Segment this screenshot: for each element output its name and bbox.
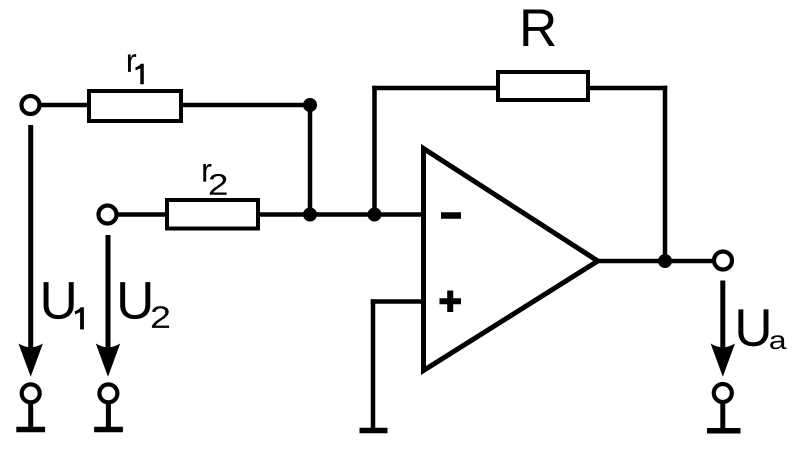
wire from input 2 terminal to resistor r2 xyxy=(116,212,169,217)
op-amp non-inverting input plus sign xyxy=(440,298,462,304)
wire op-amp output to output terminal xyxy=(598,259,715,264)
label r1 xyxy=(128,54,144,84)
resistor R xyxy=(498,72,588,100)
node C junction dot xyxy=(368,208,382,222)
ground terminal 1 open circle xyxy=(22,384,40,402)
wire from resistor R to right elbow xyxy=(586,86,667,91)
label U1 xyxy=(44,282,84,329)
node A junction dot xyxy=(303,98,317,112)
output ground terminal bar xyxy=(707,428,741,434)
wire from input 1 terminal to resistor r1 xyxy=(39,103,91,108)
ground terminal 1 bar xyxy=(16,427,45,433)
label Ua xyxy=(738,309,786,349)
ground bar under + input xyxy=(360,428,388,434)
output ground terminal stem xyxy=(720,403,725,430)
resistor r1 xyxy=(89,91,181,121)
ground terminal 2 bar xyxy=(94,427,123,433)
resistor r2 xyxy=(167,200,258,229)
wire op-amp + input to ground elbow xyxy=(371,299,424,304)
node B junction dot xyxy=(303,208,317,222)
voltage arrow U2 shaft xyxy=(106,235,111,352)
wire ground elbow down to ground symbol xyxy=(371,299,376,430)
op-amp inverting input minus sign xyxy=(441,212,461,219)
voltage arrow U1 head xyxy=(19,344,43,377)
wire from resistor r2 through node B and node C to op-amp inverting input xyxy=(256,212,424,217)
output terminal open circle xyxy=(714,252,732,270)
op-amp U1 triangle xyxy=(424,149,598,371)
ground terminal 2 stem xyxy=(106,403,111,430)
label R xyxy=(523,10,554,46)
ground terminal 1 stem xyxy=(28,403,33,430)
wire node C up to feedback rail xyxy=(372,86,377,215)
voltage arrow Ua head xyxy=(711,344,735,377)
wire node A down to node B xyxy=(308,105,313,215)
voltage arrow U1 shaft xyxy=(28,125,33,352)
voltage arrow U2 head xyxy=(96,344,120,377)
output ground terminal open circle xyxy=(714,384,732,402)
wire right elbow down to output node D xyxy=(663,86,668,261)
label U2 xyxy=(120,282,169,328)
wire feedback rail left segment to resistor R xyxy=(372,86,500,91)
ground terminal 2 open circle xyxy=(99,384,117,402)
label r2 xyxy=(203,164,226,195)
input terminal 2 open circle xyxy=(99,206,117,224)
input terminal 1 open circle xyxy=(22,96,40,114)
node D output junction dot xyxy=(658,254,672,268)
wire from resistor r1 to node A xyxy=(179,103,310,108)
voltage arrow Ua shaft xyxy=(720,281,725,353)
